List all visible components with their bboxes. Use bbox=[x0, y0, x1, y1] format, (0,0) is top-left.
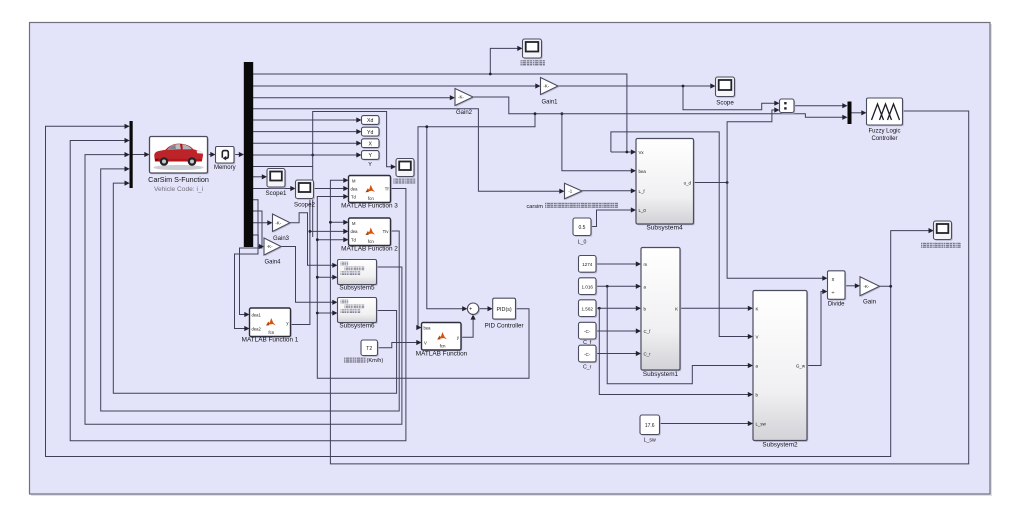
svg-text:T2: T2 bbox=[366, 346, 372, 352]
svg-text:÷: ÷ bbox=[832, 290, 835, 296]
svg-text:Subsystem1: Subsystem1 bbox=[643, 371, 679, 378]
svg-text:C_r: C_r bbox=[644, 352, 652, 357]
wire branch to Subsystem4 bea bbox=[562, 114, 635, 171]
svg-text:Scope: Scope bbox=[716, 100, 734, 107]
svg-text:bea: bea bbox=[424, 325, 432, 330]
wire loopA gain feedback to mux in1 bbox=[46, 126, 891, 456]
svg-text:fcn: fcn bbox=[368, 196, 374, 201]
svg-text:carsim: carsim bbox=[527, 204, 544, 210]
constant 1.016 bbox=[580, 279, 598, 296]
CarSim S-Function block bbox=[151, 138, 209, 175]
svg-text:Gain4: Gain4 bbox=[264, 259, 281, 265]
Fuzzy Logic Controller block bbox=[868, 99, 904, 126]
svg-text:Subsystem4: Subsystem4 bbox=[646, 224, 683, 231]
svg-text:-1: -1 bbox=[568, 189, 572, 194]
MATLAB Function 2 block bbox=[350, 219, 392, 247]
svg-text:Subsystem5: Subsystem5 bbox=[339, 285, 375, 292]
wire demux ch1 Vx bbox=[253, 74, 627, 152]
svg-text:Controller: Controller bbox=[871, 136, 897, 142]
svg-text:-: - bbox=[471, 311, 473, 317]
svg-text:L_f: L_f bbox=[639, 189, 646, 194]
svg-text:dea: dea bbox=[351, 229, 359, 234]
wire demux ch2 to Gain1 bbox=[253, 85, 540, 87]
Subsystem1 block bbox=[642, 249, 681, 372]
Memory block bbox=[217, 148, 236, 165]
wire branch to MATLAB Function bea bbox=[418, 114, 535, 328]
svg-text:L_0: L_0 bbox=[578, 240, 587, 246]
scope longitudinal speed bbox=[524, 40, 543, 59]
wire T2 to MATLAB Function V bbox=[378, 343, 421, 348]
svg-text:dea1: dea1 bbox=[252, 312, 262, 317]
svg-text:-K-: -K- bbox=[458, 95, 464, 100]
Subsystem4 block bbox=[637, 140, 695, 226]
wire mux block to mux bar bbox=[794, 105, 846, 107]
svg-text:Y: Y bbox=[368, 153, 372, 159]
svg-text:-C-: -C- bbox=[584, 329, 591, 334]
wire demux ch15 to Gain4 bbox=[253, 235, 263, 247]
svg-text:PID Controller: PID Controller bbox=[485, 323, 524, 330]
wire loopB Tf feedback to mux in2 bbox=[70, 141, 406, 441]
wire a to Subsystem2 a bbox=[607, 286, 751, 384]
scope signal measurement bbox=[397, 160, 415, 178]
svg-text:PID(s): PID(s) bbox=[496, 307, 511, 313]
wire 1.016 to a bbox=[596, 285, 639, 287]
MATLAB Function block bbox=[423, 324, 463, 352]
mux block bbox=[781, 100, 796, 114]
svg-text:dea: dea bbox=[351, 186, 359, 191]
constant Cf bbox=[580, 324, 598, 341]
svg-text:-K-: -K- bbox=[275, 220, 281, 225]
wire CarSim to Memory bbox=[208, 154, 215, 156]
wire demux ch10 to Scope1 bbox=[253, 176, 266, 178]
svg-text:Gain1: Gain1 bbox=[541, 99, 558, 105]
svg-text:M: M bbox=[352, 179, 356, 184]
wire loopC Subsystem5 to mux in3 bbox=[85, 155, 402, 425]
wire loopE Subsystem6 to mux in5 bbox=[113, 183, 396, 393]
gain Gain4 bbox=[265, 239, 282, 256]
wire demux ch13 to MATLAB Function1 dea1 bbox=[240, 211, 263, 315]
wire branch to fuzzy steering scope bbox=[891, 231, 933, 287]
wire 0.5 to Subsystem4 L_0 bbox=[591, 210, 634, 227]
wire 17.6 to Subsystem2 L_sw bbox=[660, 423, 752, 425]
svg-text:Vehicle Code: i_i: Vehicle Code: i_i bbox=[154, 186, 204, 193]
Subsystem6 block bbox=[339, 299, 378, 324]
svg-text:0.5: 0.5 bbox=[579, 225, 586, 231]
svg-text:-K-: -K- bbox=[543, 84, 549, 89]
svg-text:V: V bbox=[424, 340, 427, 345]
wire u_d to mux block in2 bbox=[727, 110, 778, 183]
wire b to Subsystem2 b bbox=[599, 308, 751, 394]
wire demux ch14 to Gain3 bbox=[253, 222, 272, 224]
svg-text:M: M bbox=[352, 221, 356, 226]
wire 1274 to m bbox=[596, 263, 639, 265]
car body bbox=[154, 165, 204, 170]
wire branch to sum reference bbox=[427, 127, 466, 309]
svg-text:Td: Td bbox=[351, 237, 357, 242]
svg-text:Td: Td bbox=[351, 194, 357, 199]
constant 17.6 bbox=[641, 416, 661, 436]
wire branch to mux block in1 bbox=[683, 86, 778, 110]
mux bar before fuzzy controller bbox=[848, 102, 852, 125]
svg-text:V: V bbox=[756, 335, 759, 340]
svg-text:K: K bbox=[675, 306, 678, 311]
constant 1.562 bbox=[580, 301, 598, 318]
Scope2 bbox=[297, 181, 315, 200]
MATLAB Function 1 block bbox=[251, 309, 292, 338]
svg-text:C_r: C_r bbox=[583, 365, 592, 371]
Subsystem2 block bbox=[754, 292, 808, 442]
svg-text:fcn: fcn bbox=[368, 239, 374, 244]
input mux bar bbox=[130, 121, 133, 188]
gain -1 carsim sign convention bbox=[566, 185, 584, 201]
svg-text:bea: bea bbox=[639, 169, 647, 174]
svg-text:Divide: Divide bbox=[828, 302, 845, 308]
wire branch to M of MATLAB Function 2 bbox=[330, 221, 347, 223]
wire demux to goto block 4 bbox=[253, 154, 361, 156]
wire demux ch12 to MATLAB Function1 dea2 bbox=[235, 200, 259, 329]
svg-text:CarSim S-Function: CarSim S-Function bbox=[148, 175, 209, 184]
wire u_d to Divide X bbox=[727, 183, 826, 279]
svg-text:Yd: Yd bbox=[367, 130, 373, 136]
Subsystem5 block bbox=[339, 261, 378, 286]
wire demux to goto block 2 bbox=[253, 131, 361, 133]
wire 1.562 to b bbox=[596, 307, 639, 309]
svg-text:Scope2: Scope2 bbox=[294, 201, 316, 208]
svg-text:u_d: u_d bbox=[684, 181, 692, 186]
gain Gain bbox=[861, 278, 881, 297]
svg-text:L_0: L_0 bbox=[639, 208, 647, 213]
wire MATLAB Function y to sum bbox=[461, 316, 473, 338]
svg-text:Xd: Xd bbox=[367, 118, 373, 124]
goto blocks bbox=[363, 117, 381, 126]
svg-text:dea2: dea2 bbox=[252, 326, 262, 331]
wire -1 gain to Subsystem4 L_f bbox=[582, 190, 635, 192]
wire demux ch11 to Scope2 bbox=[253, 188, 295, 190]
gain Gain2 bbox=[456, 90, 474, 107]
svg-text:(Km/h): (Km/h) bbox=[367, 358, 384, 364]
svg-text:X: X bbox=[368, 141, 372, 147]
wire Memory to demux bbox=[234, 154, 243, 156]
gain Gain3 bbox=[274, 215, 292, 233]
wire mux to CarSim bbox=[133, 154, 149, 156]
Scope top right bbox=[717, 78, 736, 98]
svg-text:L_sw: L_sw bbox=[756, 422, 767, 427]
svg-text:m: m bbox=[644, 262, 648, 267]
svg-text:L_sw: L_sw bbox=[644, 438, 656, 444]
PID Controller block bbox=[494, 299, 517, 320]
svg-text:Gain: Gain bbox=[863, 299, 877, 306]
svg-text:MATLAB Function 2: MATLAB Function 2 bbox=[341, 246, 398, 253]
wire demux ch4 to -1 gain bbox=[253, 109, 564, 191]
Divide block bbox=[829, 272, 847, 301]
wire fuzzy output feedback to M inputs bbox=[330, 111, 968, 464]
constant 1274 bbox=[580, 257, 598, 274]
svg-text:Gain2: Gain2 bbox=[456, 110, 473, 116]
svg-text:1274: 1274 bbox=[582, 262, 593, 267]
wire demux to goto block 1 bbox=[253, 119, 361, 121]
svg-text:Fuzzy Logic: Fuzzy Logic bbox=[868, 129, 900, 135]
svg-text:G_w: G_w bbox=[796, 364, 806, 369]
wire Y branch to signal scope bbox=[313, 112, 395, 238]
svg-text:fcn: fcn bbox=[268, 330, 274, 335]
gain Gain1 bbox=[542, 79, 560, 96]
scope fuzzy steering angle bbox=[935, 222, 953, 241]
demux bar bbox=[244, 62, 253, 247]
svg-text:-K-: -K- bbox=[864, 284, 870, 289]
sum junction bbox=[469, 304, 480, 315]
svg-text:Subsystem2: Subsystem2 bbox=[762, 442, 798, 449]
svg-text:fcn: fcn bbox=[440, 343, 446, 348]
constant Cr bbox=[580, 346, 598, 363]
wire Gain2 out to mux bar bbox=[473, 97, 846, 117]
wire Subsystem1 K to Subsystem2 K bbox=[680, 307, 752, 309]
wire Cf to C_f bbox=[596, 330, 639, 332]
wire PID output to Td inputs bbox=[317, 197, 529, 379]
wire Gain1 out to Scope bbox=[558, 85, 715, 87]
wire sum to PID bbox=[479, 308, 492, 310]
wire Subsystem2 G_w to Divide bbox=[807, 292, 826, 366]
svg-text:1.562: 1.562 bbox=[581, 307, 593, 312]
wire demux ch9 bbox=[253, 166, 313, 168]
constant T2 bbox=[362, 341, 379, 357]
MATLAB Function 3 block bbox=[350, 177, 392, 204]
wire Vx to Subsystem2 V input bbox=[611, 132, 752, 337]
wire Divide to Gain bbox=[845, 285, 859, 287]
svg-text:K: K bbox=[756, 306, 759, 311]
svg-text:C_f: C_f bbox=[644, 329, 652, 334]
svg-text:Memory: Memory bbox=[214, 165, 236, 171]
wire demux ch3 to Gain2 bbox=[253, 97, 454, 99]
wire mux bar to Fuzzy Logic Controller bbox=[852, 112, 866, 114]
svg-text:MATLAB Function 1: MATLAB Function 1 bbox=[242, 337, 299, 344]
svg-text:Y: Y bbox=[368, 162, 372, 168]
wire Gain4 to Subsystem6 in1 bbox=[281, 247, 336, 303]
wire loopD TIv to mux in4 bbox=[101, 169, 400, 411]
svg-text:x: x bbox=[832, 277, 835, 283]
svg-text:MATLAB Function: MATLAB Function bbox=[416, 351, 468, 358]
svg-text:Subsystem6: Subsystem6 bbox=[339, 323, 375, 330]
wire MATLAB Function1 y to dea inputs bbox=[291, 189, 348, 325]
Scope1 bbox=[268, 170, 286, 189]
svg-text:17.6: 17.6 bbox=[645, 423, 655, 429]
svg-text:Vx: Vx bbox=[639, 150, 645, 155]
svg-text:Scope1: Scope1 bbox=[266, 190, 288, 197]
svg-text:1.016: 1.016 bbox=[581, 285, 593, 290]
svg-text:-K-: -K- bbox=[267, 244, 273, 249]
wire Gain3 to Subsystem5 in1 bbox=[290, 213, 336, 265]
svg-text:TIv: TIv bbox=[383, 229, 390, 234]
wire Cr to C_r bbox=[596, 353, 639, 355]
wire Subsystem4 u_d output bbox=[694, 182, 728, 184]
constant 0.5 bbox=[574, 219, 592, 237]
wire branch to longitudinal speed scope bbox=[490, 48, 521, 74]
svg-text:-C-: -C- bbox=[584, 352, 591, 357]
wire demux to goto block 3 bbox=[253, 142, 361, 144]
svg-text:MATLAB Function 3: MATLAB Function 3 bbox=[341, 202, 398, 209]
svg-text:Gain3: Gain3 bbox=[273, 236, 290, 242]
